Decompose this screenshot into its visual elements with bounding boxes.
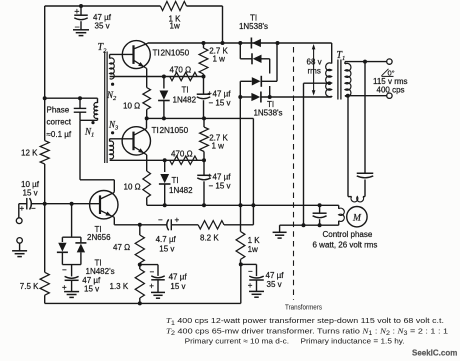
transformer T2 core (104, 52, 106, 164)
resistor 10 ohm lower (143, 171, 151, 198)
svg-text:+: + (175, 215, 180, 224)
wire bottom rail (45, 302, 241, 304)
diode D4 1N538 row4 (239, 97, 241, 118)
transistor Q2 TI2N1050 (122, 127, 150, 155)
capacitor 47uf 15v upper (203, 77, 205, 95)
resistor 1K 1w top (160, 1, 186, 10)
svg-text:47 µf: 47 µf (169, 273, 188, 282)
svg-text:+: + (248, 281, 253, 290)
wire rail2 (Q2 collector) (147, 117, 254, 119)
resistor 470 ohm lower (170, 156, 198, 164)
svg-text:10 Ω: 10 Ω (123, 101, 140, 110)
svg-text:Primary current ≈ 10 ma d-c.: Primary current ≈ 10 ma d-c. Primary ind… (185, 337, 405, 346)
svg-text:400 cps: 400 cps (377, 86, 405, 95)
svg-text:47 µf: 47 µf (213, 90, 232, 99)
svg-text:Control phase: Control phase (323, 230, 373, 239)
wire emitter row B (110, 159, 204, 161)
svg-text:470 Ω: 470 Ω (170, 65, 192, 74)
svg-text:2N656: 2N656 (87, 233, 111, 242)
svg-text:1 w: 1 w (212, 142, 225, 151)
resistor 2.7K 1w upper (203, 43, 205, 48)
reference winding coil (348, 196, 352, 198)
capacitor across control winding (319, 205, 321, 213)
capacitor 47uf 15v bias (71, 265, 73, 277)
svg-text:15 v: 15 v (23, 188, 38, 197)
capacitor 47uf 15v lower (203, 160, 205, 175)
svg-text:TI 2N1050: TI 2N1050 (153, 49, 190, 58)
svg-text:1 w: 1 w (213, 55, 226, 64)
svg-text:−: − (158, 215, 163, 224)
resistor 1.3K (138, 263, 142, 267)
svg-text:15 v: 15 v (84, 285, 99, 294)
svg-text:SeekIC.com: SeekIC.com (412, 348, 457, 357)
svg-text:35 v: 35 v (95, 22, 110, 31)
T1 primary winding (331, 43, 333, 64)
svg-text:+: + (62, 283, 67, 292)
svg-text:− 15 v: − 15 v (209, 99, 231, 108)
resistor 470 ohm upper (170, 72, 198, 80)
svg-text:M: M (352, 213, 362, 223)
wire right drop from 1K to collector row (222, 6, 224, 43)
capacitor 47uf 35v output filter (241, 263, 257, 265)
svg-text:1N482's: 1N482's (86, 267, 115, 276)
transistor Q3 TI 2N656 (90, 191, 118, 219)
wire phase-correct node (43, 96, 47, 100)
diode D2 1N538 row2 (239, 43, 241, 59)
wire reference phase right drop (364, 62, 366, 174)
svg-text:correct: correct (47, 118, 72, 127)
svg-text:15 v: 15 v (159, 244, 174, 253)
svg-text:Phase: Phase (47, 106, 70, 115)
svg-text:68 v: 68 v (307, 57, 322, 66)
resistor 12K (40, 141, 49, 164)
svg-text:TI 2N1050: TI 2N1050 (152, 126, 189, 135)
svg-text:4.7 µf: 4.7 µf (156, 235, 177, 244)
svg-text:1N538's: 1N538's (253, 109, 282, 118)
resistor 2.7K 1w lower (203, 118, 205, 127)
svg-text:Transformers: Transformers (285, 302, 322, 311)
svg-text:0°: 0° (388, 68, 395, 77)
wire output rail3 to motor (147, 204, 339, 206)
svg-text:7.5 K: 7.5 K (20, 282, 39, 291)
svg-text:1.3 K: 1.3 K (110, 282, 129, 291)
svg-text:−: − (248, 267, 253, 276)
svg-text:12 K: 12 K (21, 148, 38, 157)
wire reference phase left drop (347, 96, 349, 197)
svg-text:1N482: 1N482 (169, 186, 193, 195)
svg-text:470 Ω: 470 Ω (171, 150, 193, 159)
wire secondary bottom to terminal (345, 95, 387, 97)
capacitor 47uf 15v emitter (140, 264, 158, 266)
svg-text:35 v: 35 v (267, 280, 282, 289)
label output phase angle (382, 69, 389, 76)
svg-text:+: + (20, 204, 25, 213)
wire Q2 base (110, 138, 134, 140)
resistor 47 ohm (139, 225, 141, 235)
svg-text:− 15 v: − 15 v (209, 182, 231, 191)
dashed boundary line (293, 47, 295, 300)
wire Q3 base (43, 202, 47, 206)
svg-text:1N482: 1N482 (173, 95, 197, 104)
svg-text:1w: 1w (170, 22, 180, 31)
wire emitter row A (110, 76, 204, 78)
wire D2 anode drop with hop (269, 59, 271, 74)
diode 1N482 upper (163, 77, 165, 89)
resistor 1K 1w output filter (240, 205, 242, 231)
svg-text:≈0.1 µf: ≈0.1 µf (47, 130, 72, 139)
svg-text:1N538's: 1N538's (239, 22, 268, 31)
wire collector row1 (148, 42, 332, 44)
svg-text:−: − (62, 266, 67, 275)
capacitor 10uf 15v input (26, 198, 28, 210)
svg-text:6 watt, 26 volt rms: 6 watt, 26 volt rms (313, 241, 378, 250)
T1 secondary winding (344, 62, 346, 64)
diode pair TI 1N482s (71, 204, 73, 238)
svg-text:+: + (74, 7, 79, 17)
motor M (347, 207, 367, 227)
wire N1 bottom to Q3 collector (80, 119, 98, 121)
svg-text:−: − (150, 267, 155, 276)
wire motor return (280, 224, 339, 226)
svg-text:8.2 K: 8.2 K (200, 233, 219, 242)
capacitor 4.7uf 15v (167, 219, 169, 230)
svg-text:−: − (31, 204, 36, 213)
capacitor 0.1uf phase correct (79, 98, 81, 108)
resistor 10 ohm upper (143, 88, 151, 110)
T2 winding N2 (109, 54, 111, 58)
resistor 7.5K (40, 272, 49, 295)
svg-text:47 µf: 47 µf (213, 172, 232, 181)
capacitor reference phase series (357, 172, 374, 174)
svg-text:TI: TI (182, 86, 189, 95)
transistor Q1 TI2N1050 (122, 41, 150, 69)
wire T1 center tap (304, 82, 331, 84)
svg-text:TI: TI (172, 176, 179, 185)
68v rms arrow (313, 46, 315, 94)
svg-text:1 K: 1 K (248, 236, 261, 245)
transformer T1 core (337, 60, 339, 100)
svg-text:rms: rms (308, 66, 321, 75)
svg-text:10 Ω: 10 Ω (124, 182, 141, 191)
ground motor return (273, 231, 287, 233)
wire secondary top to terminal (345, 61, 387, 63)
wire Q3 emitter row (114, 224, 167, 226)
diode D1 1N538 row1 (250, 37, 252, 48)
capacitor C1 47uf 35v top-left (79, 4, 83, 8)
svg-text:+: + (149, 282, 154, 291)
ground below C1 (73, 29, 89, 31)
input terminal (16, 218, 22, 224)
svg-text:1w: 1w (248, 245, 258, 254)
diode D3 1N538 row3 (239, 81, 241, 97)
svg-text:47 Ω: 47 Ω (113, 243, 130, 252)
wire top supply rail (45, 5, 161, 7)
resistor 8.2K (198, 221, 224, 229)
wire Q1 base (110, 53, 134, 55)
ground input terminal (17, 238, 23, 244)
control phase winding (338, 205, 340, 209)
T2 winding N1 (97, 98, 99, 103)
svg-text:47 µf: 47 µf (266, 271, 285, 280)
svg-text:15 v: 15 v (170, 282, 185, 291)
diode 1N482 lower (164, 160, 166, 172)
wire left rail (44, 6, 46, 141)
